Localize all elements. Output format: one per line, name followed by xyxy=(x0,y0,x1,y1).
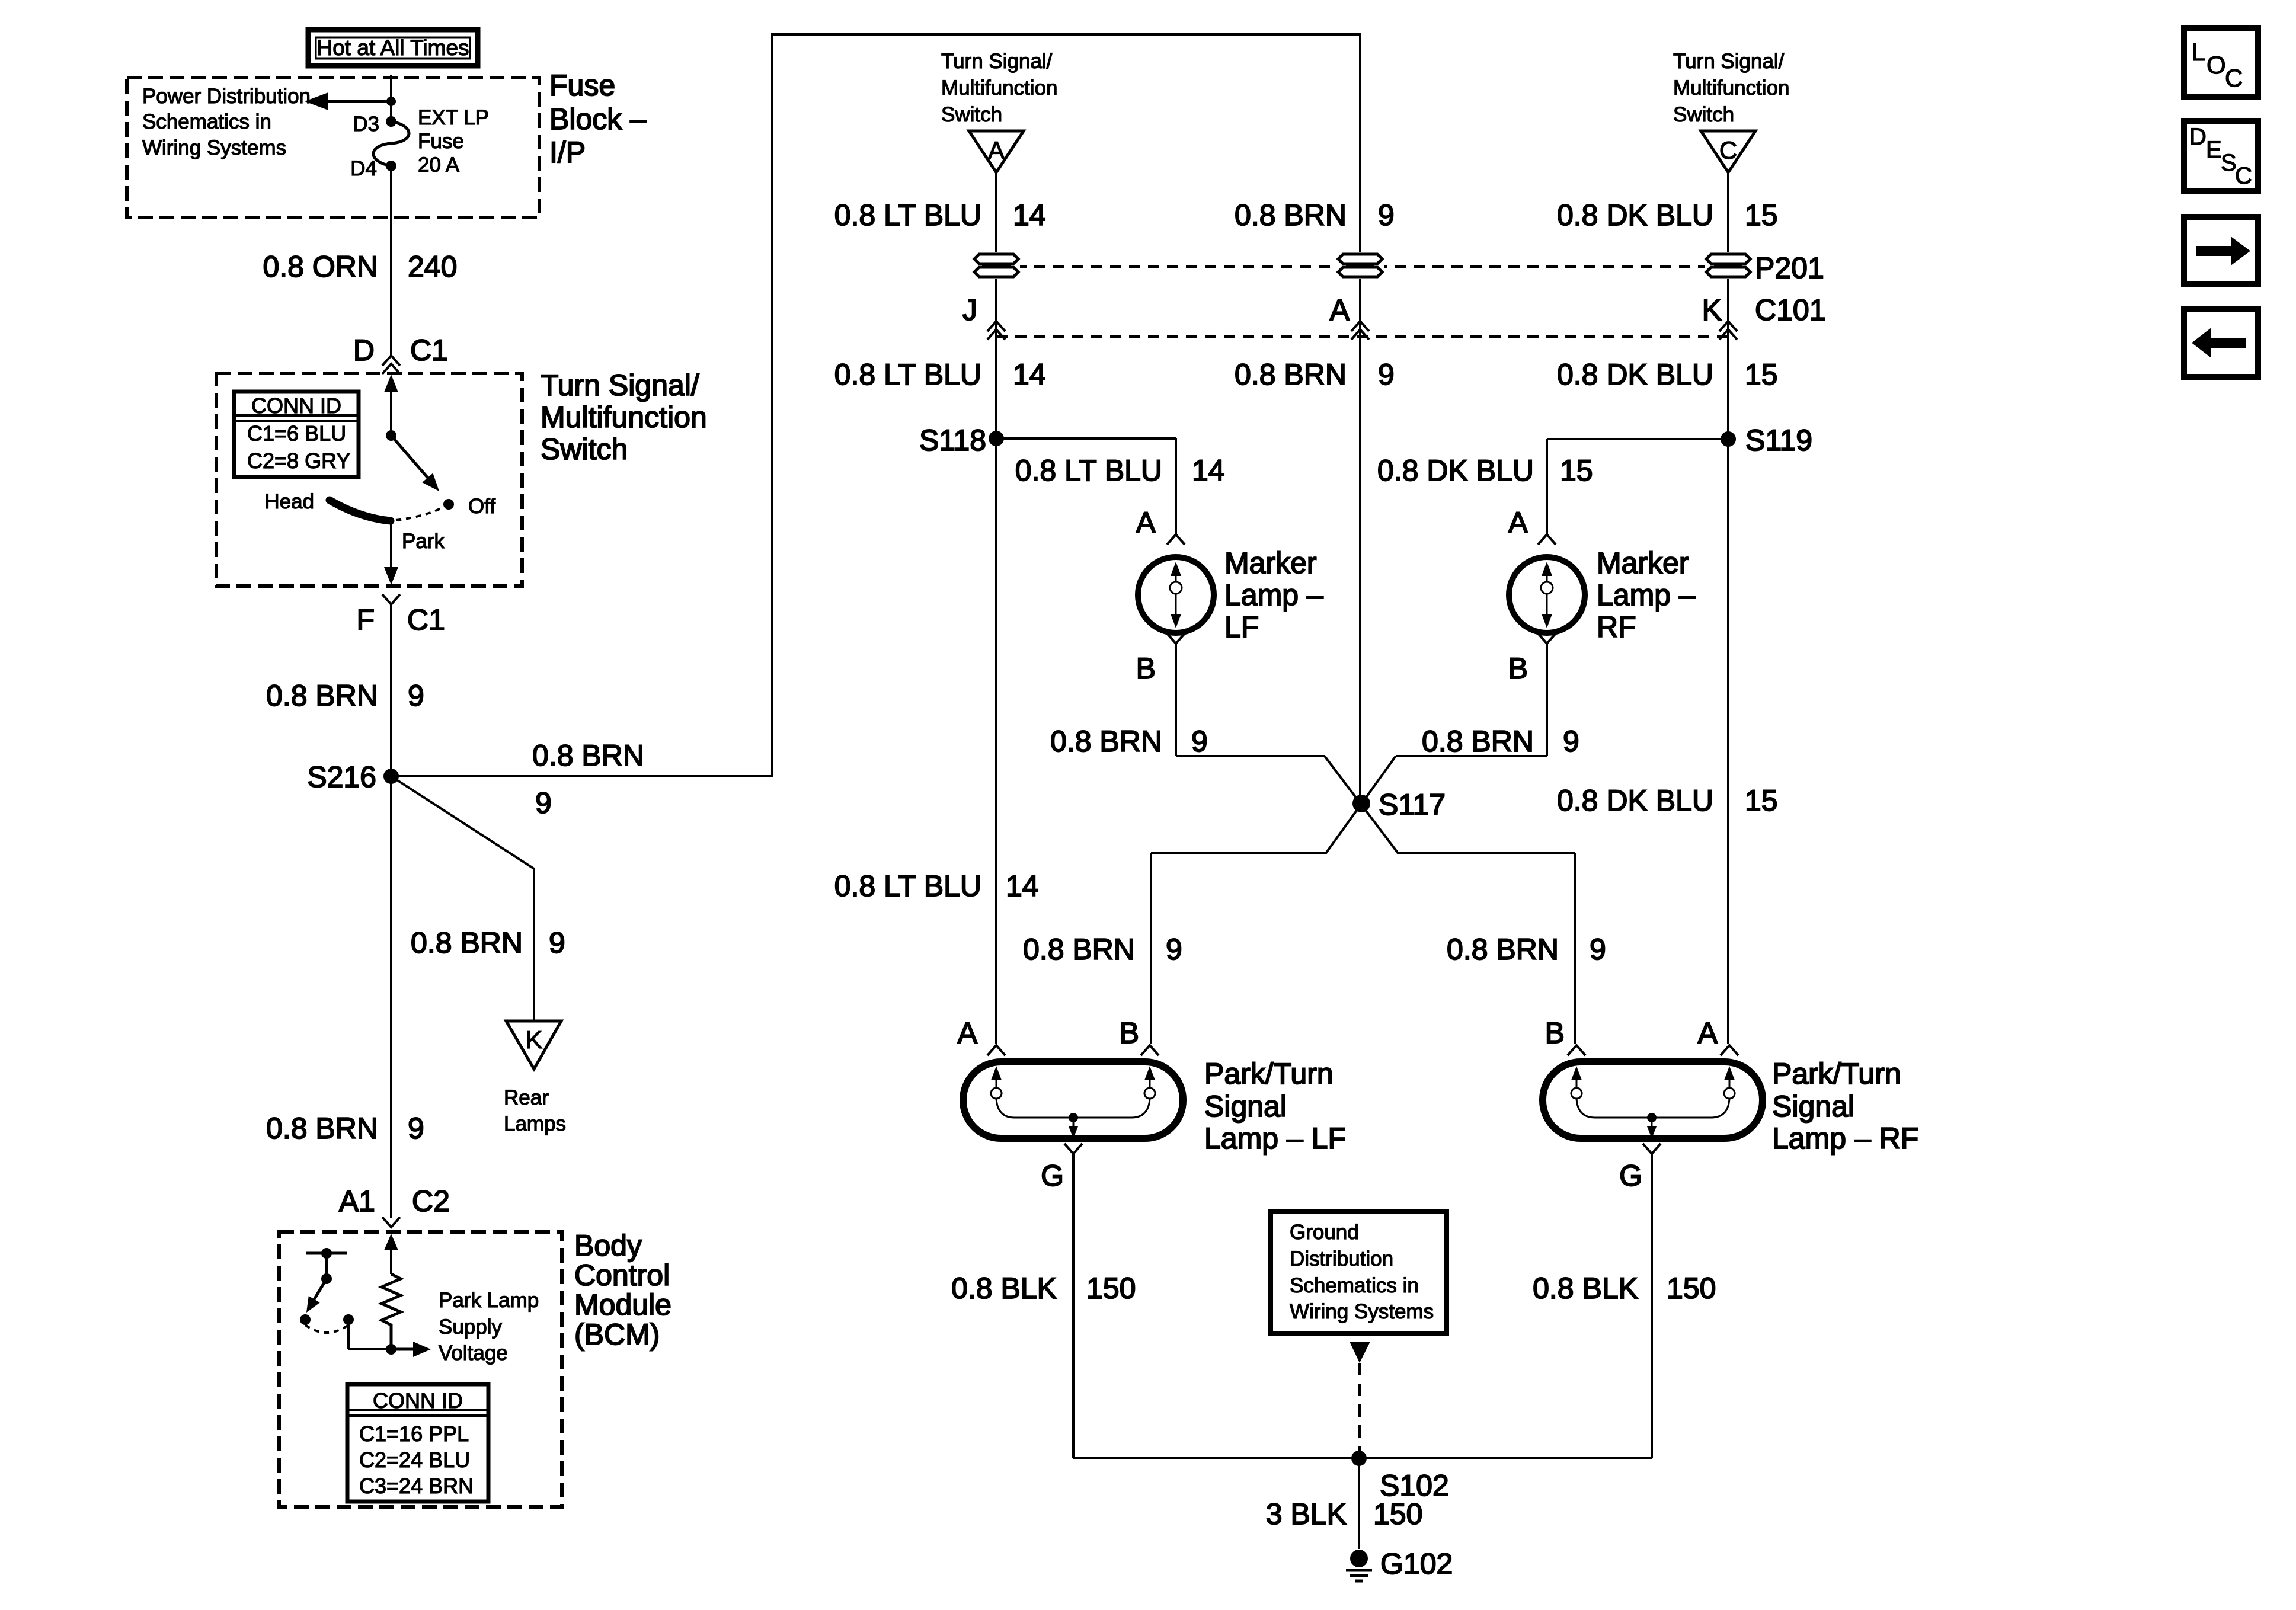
wire label 9 under horizontal xyxy=(535,786,552,820)
switch Off contact dot xyxy=(443,499,454,510)
svg-text:0.8 BLK: 0.8 BLK xyxy=(951,1272,1057,1305)
svg-text:Turn Signal/: Turn Signal/ xyxy=(541,369,699,402)
svg-text:15: 15 xyxy=(1745,199,1778,232)
wire label 0.8 BRN 9 (row2) xyxy=(1235,358,1395,391)
svg-text:CONN ID: CONN ID xyxy=(373,1388,463,1413)
svg-text:Multifunction: Multifunction xyxy=(1673,76,1789,100)
svg-text:CONN ID: CONN ID xyxy=(251,393,341,418)
ground note pointer triangle xyxy=(1350,1342,1370,1363)
svg-text:B: B xyxy=(1508,652,1528,685)
svg-text:C: C xyxy=(2235,163,2252,189)
arrow into switch from C1 xyxy=(384,375,398,436)
wire label 0.8 BLK 150 (RF) xyxy=(1533,1272,1716,1305)
dashed link to S102 xyxy=(1358,1363,1361,1451)
svg-text:K: K xyxy=(526,1026,542,1054)
svg-text:Fuse: Fuse xyxy=(418,130,464,153)
svg-text:B: B xyxy=(1545,1016,1565,1049)
svg-text:0.8 BRN: 0.8 BRN xyxy=(1050,725,1162,758)
wire label 0.8 BRN over horizontal xyxy=(532,739,644,772)
svg-text:Signal: Signal xyxy=(1772,1090,1854,1123)
wire Marker RF B to S117 xyxy=(1326,644,1547,853)
dashed line P201 row xyxy=(996,265,1750,268)
svg-text:Body: Body xyxy=(574,1229,642,1262)
svg-text:RF: RF xyxy=(1597,610,1636,644)
svg-text:Lamp –: Lamp – xyxy=(1224,578,1323,612)
svg-text:S117: S117 xyxy=(1379,788,1446,821)
svg-text:Rear: Rear xyxy=(504,1086,549,1109)
wire label 3 BLK 150 xyxy=(1266,1497,1423,1531)
connector D C1 chevrons xyxy=(382,356,400,374)
svg-text:Block –: Block – xyxy=(549,103,647,136)
wire label 0.8 BRN 9 (lamp LF B) xyxy=(1023,933,1182,966)
svg-text:9: 9 xyxy=(1378,358,1395,391)
svg-text:Signal: Signal xyxy=(1204,1090,1287,1123)
svg-text:0.8 BLK: 0.8 BLK xyxy=(1533,1272,1638,1305)
pin A Marker LF xyxy=(1136,506,1185,545)
connector P201 on DK BLU xyxy=(1705,251,1824,284)
svg-text:C3=24 BRN: C3=24 BRN xyxy=(359,1474,474,1498)
svg-text:0.8 LT BLU: 0.8 LT BLU xyxy=(834,869,981,902)
marker lamp LF bulb xyxy=(1138,557,1214,633)
svg-text:0.8 BRN: 0.8 BRN xyxy=(1422,725,1534,758)
svg-text:G: G xyxy=(1619,1159,1642,1192)
svg-text:C2=8 GRY: C2=8 GRY xyxy=(247,449,350,473)
svg-text:K: K xyxy=(1702,293,1722,327)
svg-text:3 BLK: 3 BLK xyxy=(1266,1497,1347,1531)
wire 0.8 BRN 9 to S216 xyxy=(390,603,392,776)
marker lamp RF bulb xyxy=(1509,557,1585,633)
svg-text:Switch: Switch xyxy=(941,103,1002,126)
wire fuse output 0.8 ORN 240 xyxy=(390,166,392,356)
svg-text:Park/Turn: Park/Turn xyxy=(1204,1057,1334,1090)
pin labels B A lamp RF xyxy=(1545,1016,1718,1049)
svg-text:D4: D4 xyxy=(350,157,377,180)
splice S102 xyxy=(1351,1451,1449,1502)
svg-text:C: C xyxy=(2225,64,2243,92)
svg-text:Park/Turn: Park/Turn xyxy=(1772,1057,1901,1090)
svg-text:Power Distribution: Power Distribution xyxy=(142,85,311,108)
svg-text:C1=6 BLU: C1=6 BLU xyxy=(247,421,346,446)
svg-text:9: 9 xyxy=(408,1112,424,1145)
svg-text:0.8 BRN: 0.8 BRN xyxy=(1023,933,1135,966)
pin B Marker LF xyxy=(1136,633,1185,685)
svg-text:15: 15 xyxy=(1745,784,1778,817)
svg-text:G: G xyxy=(1041,1159,1064,1192)
svg-text:C1=16 PPL: C1=16 PPL xyxy=(359,1422,469,1446)
svg-text:0.8 BRN: 0.8 BRN xyxy=(532,739,644,772)
icon box DESC xyxy=(2184,121,2258,191)
BCM wire from contact to output xyxy=(348,1320,391,1349)
wire label 0.8 BRN 9 (row1) xyxy=(1235,199,1395,232)
connector label D C1 xyxy=(353,334,448,367)
wire label 0.8 BRN 9 (to BCM) xyxy=(266,1112,424,1145)
svg-text:9: 9 xyxy=(1378,199,1395,232)
splice S118 xyxy=(919,424,1004,457)
svg-text:9: 9 xyxy=(1166,933,1182,966)
svg-text:Hot at All Times: Hot at All Times xyxy=(316,36,469,60)
wire lamp LF ground 0.8 BLK 150 xyxy=(1072,1154,1075,1458)
label Park xyxy=(402,530,445,553)
BCM dashed arc between contacts xyxy=(305,1325,348,1333)
splice S216 xyxy=(307,760,399,793)
pin B Marker RF xyxy=(1508,633,1556,685)
BCM resistor arrow up xyxy=(384,1234,398,1274)
park/turn signal lamp RF housing xyxy=(1543,1062,1763,1138)
connector F C1 chevron xyxy=(382,594,400,604)
wire label 0.8 DK BLU 15 (row2) xyxy=(1557,358,1778,391)
splice S117 xyxy=(1352,788,1446,821)
svg-text:Fuse: Fuse xyxy=(549,69,615,102)
ground bus wire xyxy=(1073,1457,1652,1459)
svg-text:Distribution: Distribution xyxy=(1290,1247,1393,1270)
pin G lamp LF xyxy=(1041,1144,1082,1192)
wire S216 diagonal to Rear Lamps xyxy=(391,776,534,1021)
svg-text:C1: C1 xyxy=(410,334,448,367)
svg-text:C2=24 BLU: C2=24 BLU xyxy=(359,1448,470,1472)
svg-text:0.8 BRN: 0.8 BRN xyxy=(411,926,523,959)
connector P201 on BRN xyxy=(1336,252,1384,279)
label Marker Lamp - RF xyxy=(1597,546,1696,644)
svg-text:9: 9 xyxy=(535,786,552,820)
svg-text:0.8 LT BLU: 0.8 LT BLU xyxy=(1015,454,1162,487)
svg-text:EXT LP: EXT LP xyxy=(418,106,489,129)
off-page triangle C xyxy=(1701,131,1755,172)
title Body Control Module (BCM) xyxy=(574,1229,671,1351)
svg-text:9: 9 xyxy=(1563,725,1579,758)
svg-text:Ground: Ground xyxy=(1290,1221,1359,1244)
wire triangle A to lamp LF column xyxy=(995,172,997,1044)
CONN ID table (switch) xyxy=(234,392,359,477)
wire riser to top xyxy=(771,33,773,777)
title Turn Signal/Multifunction Switch (left) xyxy=(541,369,707,466)
note box Ground Distribution Schematics in Wiring Systems xyxy=(1271,1211,1447,1333)
wire label 0.8 BRN 9 (marker RF B) xyxy=(1422,725,1579,758)
svg-text:0.8 LT BLU: 0.8 LT BLU xyxy=(834,199,981,232)
svg-text:150: 150 xyxy=(1086,1272,1136,1305)
fuse block dashed box Fuse Block - I/P xyxy=(127,78,539,217)
icon box LOC xyxy=(2184,28,2258,97)
park/turn signal lamp LF housing xyxy=(963,1062,1183,1138)
svg-text:C101: C101 xyxy=(1755,293,1826,327)
label Head xyxy=(264,490,314,513)
wire S216 horizontal 0.8 BRN 9 xyxy=(391,775,772,777)
svg-text:0.8 DK BLU: 0.8 DK BLU xyxy=(1377,454,1534,487)
svg-text:Control: Control xyxy=(574,1259,670,1292)
svg-text:A: A xyxy=(1698,1016,1718,1049)
turn signal switch dashed box xyxy=(216,373,522,586)
switch pivot dot xyxy=(386,430,396,441)
svg-text:D3: D3 xyxy=(353,113,379,136)
pin chevrons lamp RF xyxy=(1568,1045,1738,1055)
wire label 0.8 BRN 9 (rear lamps) xyxy=(411,926,565,959)
CONN ID table (BCM) xyxy=(347,1384,488,1502)
BCM switch contact dots xyxy=(300,1314,354,1325)
svg-text:S119: S119 xyxy=(1745,424,1812,457)
svg-text:P201: P201 xyxy=(1755,251,1824,284)
svg-text:Off: Off xyxy=(468,495,495,518)
wire label 0.8 BRN 9 (marker LF B) xyxy=(1050,725,1208,758)
svg-text:A: A xyxy=(1508,506,1528,539)
ground G102 symbol xyxy=(1346,1550,1372,1581)
svg-text:0.8 DK BLU: 0.8 DK BLU xyxy=(1557,199,1713,232)
svg-text:20 A: 20 A xyxy=(418,153,460,177)
svg-text:Lamp – LF: Lamp – LF xyxy=(1204,1122,1346,1155)
svg-text:Wiring Systems: Wiring Systems xyxy=(142,136,286,159)
svg-text:0.8 DK BLU: 0.8 DK BLU xyxy=(1557,358,1713,391)
label Park Lamp Supply Voltage xyxy=(439,1289,539,1365)
fuse EXT LP 20 A S-curve xyxy=(373,121,409,166)
svg-text:Head: Head xyxy=(264,490,314,513)
wire top drop to S117 xyxy=(1359,33,1361,804)
note Power Distribution Schematics in Wiring Systems xyxy=(142,85,311,159)
svg-text:Voltage: Voltage xyxy=(439,1342,508,1365)
connector label F C1 xyxy=(356,603,445,636)
lamp RF filaments xyxy=(1571,1066,1735,1138)
svg-text:Turn Signal/: Turn Signal/ xyxy=(941,50,1053,73)
off-page triangle K Rear Lamps xyxy=(506,1021,561,1069)
svg-text:I/P: I/P xyxy=(549,136,586,169)
svg-text:150: 150 xyxy=(1667,1272,1716,1305)
pin G lamp RF xyxy=(1619,1144,1661,1192)
svg-text:Switch: Switch xyxy=(541,433,628,466)
BCM switch top contact xyxy=(306,1248,347,1259)
connector P201 on LT BLU xyxy=(973,252,1020,279)
svg-text:Multifunction: Multifunction xyxy=(541,401,707,434)
wire label 0.8 LT BLU 14 (row2) xyxy=(834,358,1046,391)
BCM dashed box xyxy=(279,1232,562,1507)
label box "Hot at All Times" xyxy=(308,30,478,66)
wire Park down to C1 F xyxy=(384,521,398,585)
fuse value label EXT LP Fuse 20 A xyxy=(418,106,489,177)
wire label 0.8 LT BLU 14 (marker LF) xyxy=(1015,454,1225,487)
svg-text:0.8 ORN: 0.8 ORN xyxy=(263,250,378,283)
svg-text:0.8 BRN: 0.8 BRN xyxy=(1447,933,1559,966)
BCM switch stem xyxy=(321,1253,332,1284)
icon box prev arrow xyxy=(2184,309,2258,377)
svg-text:0.8 LT BLU: 0.8 LT BLU xyxy=(834,358,981,391)
svg-text:9: 9 xyxy=(408,679,424,712)
svg-text:G102: G102 xyxy=(1380,1547,1453,1580)
svg-text:L: L xyxy=(2192,38,2205,66)
svg-text:Marker: Marker xyxy=(1224,546,1317,580)
wire label 0.8 DK BLU 15 (mid right) xyxy=(1557,784,1778,817)
title Turn Signal/Multifunction Switch (A) xyxy=(941,50,1057,126)
pin D4 xyxy=(350,157,396,180)
svg-text:B: B xyxy=(1120,1016,1139,1049)
wire label 0.8 BRN 9 xyxy=(266,679,424,712)
label Park/Turn Signal Lamp - LF xyxy=(1204,1057,1346,1155)
connector C101 chevrons BRN xyxy=(1351,321,1369,340)
svg-text:A1: A1 xyxy=(339,1185,375,1218)
label G102 xyxy=(1380,1547,1453,1580)
svg-text:J: J xyxy=(962,293,977,327)
arrow to Power Distribution xyxy=(305,92,391,110)
connector pin labels J A K C101 xyxy=(962,293,1826,327)
svg-text:A: A xyxy=(988,136,1005,164)
switch Head arc (thick) xyxy=(330,500,391,521)
svg-text:Wiring Systems: Wiring Systems xyxy=(1290,1300,1434,1323)
wire 3 BLK 150 to G102 xyxy=(1358,1458,1360,1549)
svg-text:(BCM): (BCM) xyxy=(574,1318,660,1351)
svg-text:15: 15 xyxy=(1560,454,1593,487)
connector C101 chevrons DK BLU xyxy=(1719,321,1737,340)
wire label 0.8 LT BLU 14 (lamp LF A) xyxy=(834,869,1039,902)
svg-text:Marker: Marker xyxy=(1597,546,1689,580)
wire S216 down 0.8 BRN 9 to BCM xyxy=(390,776,392,1218)
svg-text:14: 14 xyxy=(1013,199,1046,232)
wire triangle C down right column xyxy=(1727,172,1729,1044)
svg-text:0.8 DK BLU: 0.8 DK BLU xyxy=(1557,784,1713,817)
svg-text:S216: S216 xyxy=(307,760,376,793)
svg-text:A: A xyxy=(1330,293,1350,327)
junction dot at fuse feed xyxy=(386,97,396,106)
switch arm arrow toward Off xyxy=(391,436,439,491)
BCM arrow Park Lamp Supply Voltage xyxy=(391,1342,431,1357)
title Turn Signal/Multifunction Switch (C) xyxy=(1673,50,1789,126)
wire S117 to lamp RF pin B xyxy=(1398,853,1575,1044)
wire S117 to lamp LF pin B xyxy=(1151,853,1326,1044)
svg-text:Lamp – RF: Lamp – RF xyxy=(1772,1122,1918,1155)
connector label A1 C2 xyxy=(339,1185,450,1218)
title Fuse Block - I/P xyxy=(549,69,647,169)
svg-text:C1: C1 xyxy=(407,603,445,636)
pin D3 xyxy=(353,113,396,136)
label Marker Lamp - LF xyxy=(1224,546,1323,644)
svg-text:A: A xyxy=(958,1016,978,1049)
svg-text:B: B xyxy=(1136,652,1156,685)
pin A Marker RF xyxy=(1508,506,1556,545)
wire label 0.8 ORN 240 xyxy=(263,250,457,283)
svg-text:240: 240 xyxy=(408,250,457,283)
svg-text:Multifunction: Multifunction xyxy=(941,76,1057,100)
svg-text:E: E xyxy=(2206,137,2222,163)
svg-text:A: A xyxy=(1136,506,1156,539)
svg-text:Park: Park xyxy=(402,530,445,553)
wire S119 branch to Marker Lamp RF xyxy=(1547,439,1728,534)
svg-text:14: 14 xyxy=(1006,869,1039,902)
svg-text:Lamp –: Lamp – xyxy=(1597,578,1696,612)
splice S119 xyxy=(1721,424,1812,457)
connector A1 C2 chevron xyxy=(382,1217,400,1227)
svg-text:F: F xyxy=(356,603,375,636)
wire label 0.8 DK BLU 15 (row1) xyxy=(1557,199,1778,232)
svg-text:9: 9 xyxy=(549,926,565,959)
dashed line C101 row xyxy=(996,335,1728,338)
svg-text:LF: LF xyxy=(1224,610,1259,644)
svg-text:0.8 BRN: 0.8 BRN xyxy=(1235,358,1347,391)
wire label 0.8 BRN 9 (lamp RF B) xyxy=(1447,933,1606,966)
svg-text:D: D xyxy=(2189,124,2207,150)
wire label 0.8 LT BLU 14 (row1) xyxy=(834,199,1046,232)
svg-text:S118: S118 xyxy=(919,424,986,457)
wire label 0.8 BLK 150 (LF) xyxy=(951,1272,1136,1305)
svg-text:Schematics in: Schematics in xyxy=(1290,1274,1419,1297)
label Park/Turn Signal Lamp - RF xyxy=(1772,1057,1918,1155)
pin labels A B lamp LF xyxy=(958,1016,1139,1049)
wire lamp RF ground 0.8 BLK 150 xyxy=(1651,1154,1653,1458)
svg-text:Supply: Supply xyxy=(439,1315,503,1339)
svg-text:14: 14 xyxy=(1192,454,1225,487)
off-page triangle A xyxy=(969,131,1024,172)
pin chevrons lamp LF xyxy=(987,1045,1159,1055)
connector C101 chevrons LT BLU xyxy=(987,321,1005,340)
svg-text:15: 15 xyxy=(1745,358,1778,391)
wire S118 branch to Marker Lamp LF xyxy=(996,438,1176,534)
svg-text:150: 150 xyxy=(1373,1497,1422,1531)
BCM switch arm arrow xyxy=(306,1279,327,1313)
svg-text:0.8 BRN: 0.8 BRN xyxy=(266,1112,378,1145)
svg-text:0.8 BRN: 0.8 BRN xyxy=(266,679,378,712)
svg-text:C: C xyxy=(1719,136,1737,164)
svg-text:0.8 BRN: 0.8 BRN xyxy=(1235,199,1347,232)
svg-text:Turn Signal/: Turn Signal/ xyxy=(1673,50,1785,73)
svg-text:C2: C2 xyxy=(412,1185,450,1218)
wire label 0.8 DK BLU 15 (marker RF) xyxy=(1377,454,1593,487)
svg-text:Switch: Switch xyxy=(1673,103,1734,126)
svg-text:S: S xyxy=(2221,150,2237,176)
label Off xyxy=(468,495,495,518)
svg-text:D: D xyxy=(353,334,375,367)
svg-text:9: 9 xyxy=(1590,933,1606,966)
wire across top xyxy=(771,33,1360,36)
BCM resistor zigzag xyxy=(382,1274,401,1349)
icon box next arrow xyxy=(2184,217,2258,284)
svg-text:Park Lamp: Park Lamp xyxy=(439,1289,539,1312)
svg-text:O: O xyxy=(2207,51,2226,79)
switch dashed arc Park to Off xyxy=(396,507,443,520)
svg-text:Lamps: Lamps xyxy=(504,1112,566,1135)
BCM output junction dot xyxy=(386,1344,396,1355)
svg-text:9: 9 xyxy=(1191,725,1208,758)
lamp LF filaments xyxy=(991,1066,1155,1138)
wire from Hot at All Times feed into Fuse Block xyxy=(390,75,392,121)
svg-text:14: 14 xyxy=(1013,358,1046,391)
svg-text:Schematics in: Schematics in xyxy=(142,110,271,133)
wire Marker LF B to S117 xyxy=(1176,644,1398,853)
label Rear Lamps xyxy=(504,1086,566,1135)
svg-text:Module: Module xyxy=(574,1288,671,1321)
